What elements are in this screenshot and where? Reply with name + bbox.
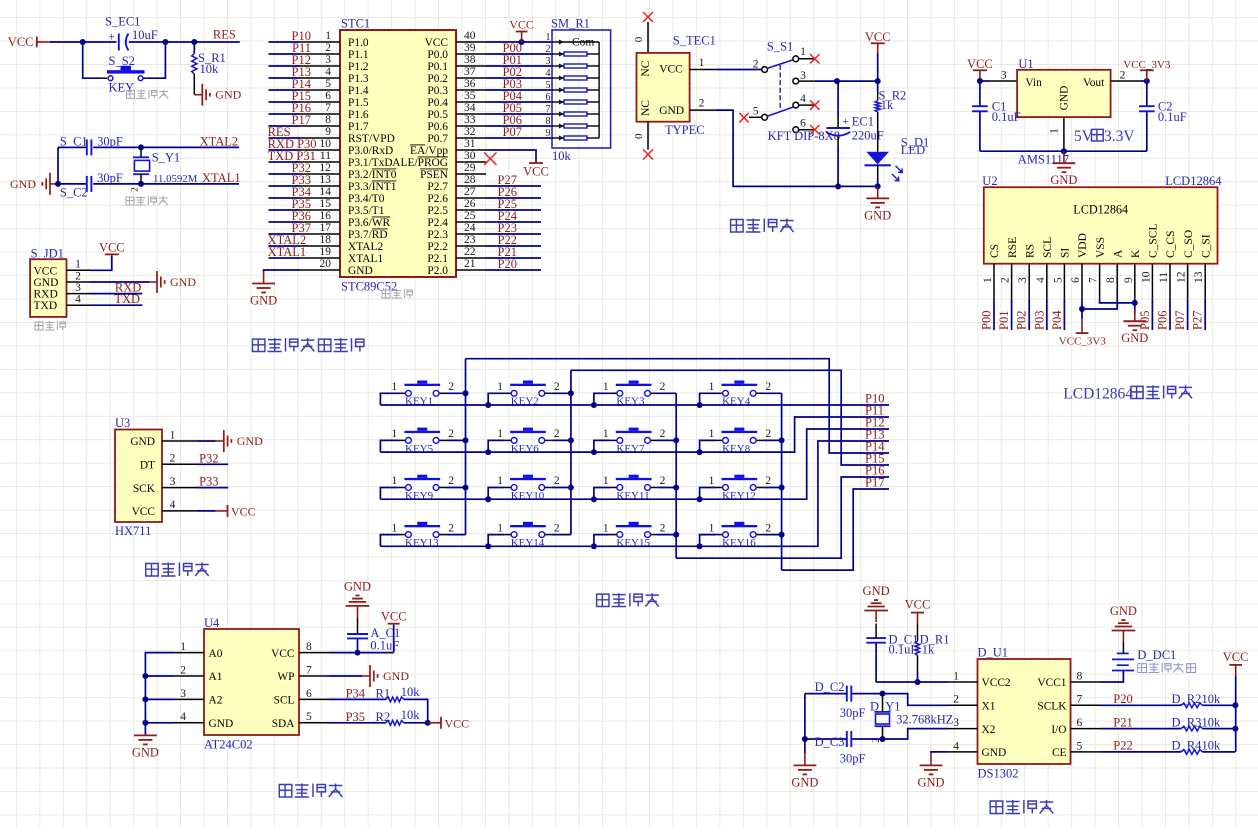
svg-text:7: 7 (1077, 694, 1083, 706)
no-connect X above S_TEC1 (643, 12, 653, 22)
svg-text:7: 7 (546, 104, 551, 115)
wire KEY8 pin1 riser (700, 440, 716, 452)
wire net TXD (90, 292, 142, 306)
power port VCC (HX711) (228, 504, 256, 518)
svg-text:KEY3: KEY3 (616, 396, 645, 408)
node junction row 2 col 2 (485, 449, 491, 455)
node junction VDD/A (1079, 306, 1085, 312)
svg-text:P0.6: P0.6 (427, 121, 448, 133)
wire KEY6 pin1 riser (488, 440, 504, 452)
svg-text:P27: P27 (1191, 311, 1205, 330)
wire KEY11 pin1 riser (594, 488, 610, 500)
SM_R1 resistor element pin 8 (546, 116, 600, 129)
wire column2 to net P15 (571, 370, 889, 465)
svg-text:GND: GND (864, 208, 891, 222)
svg-text:KEY1: KEY1 (405, 396, 433, 408)
svg-text:A1: A1 (209, 671, 223, 683)
svg-text:2: 2 (765, 522, 771, 534)
svg-text:36: 36 (464, 78, 476, 90)
pushbutton KEY8 (709, 428, 772, 455)
wire XTAL2 net (93, 146, 239, 148)
svg-text:P0.0: P0.0 (427, 49, 448, 61)
svg-text:15: 15 (320, 198, 332, 210)
svg-text:TXD: TXD (34, 300, 58, 312)
net label XTAL1 (202, 171, 241, 185)
wire pin8 VCC to A_C1 and VCC (329, 652, 394, 654)
svg-text:+: + (842, 116, 849, 128)
pin 9 STC1 RST/VPD (300, 126, 395, 145)
svg-text:P0.1: P0.1 (427, 61, 448, 73)
svg-text:KEY5: KEY5 (405, 443, 434, 455)
pushbutton KEY10 (497, 475, 560, 502)
wire KEY10 pin1 riser (488, 488, 504, 500)
svg-text:4: 4 (180, 711, 186, 723)
pin 23 STC1 P2.2 (427, 234, 486, 253)
wire net P32 (197, 451, 228, 465)
svg-text:2: 2 (753, 58, 759, 70)
svg-text:1: 1 (546, 32, 551, 43)
node junctions column3 (673, 437, 679, 537)
svg-text:1: 1 (603, 522, 609, 534)
svg-text:GND: GND (1059, 86, 1071, 111)
node junction row 4 col 4 (697, 543, 703, 549)
wire cap bus left vertical (57, 147, 59, 184)
svg-text:9: 9 (546, 128, 551, 139)
wire MCU GND pin 20 (264, 270, 300, 272)
svg-text:X1: X1 (982, 701, 996, 713)
wire KEY2 pin1 riser (488, 393, 504, 405)
svg-text:1: 1 (497, 428, 503, 440)
power port VCC (D_R1) (905, 597, 931, 623)
wire stub 0 bottom of S_TEC1 (633, 122, 648, 150)
svg-text:I/O: I/O (1051, 724, 1066, 736)
wire net RXD (90, 281, 142, 295)
wire KEY11 pin2 to column (658, 487, 677, 489)
svg-text:3: 3 (325, 54, 331, 66)
ground GND (U4 WP) (362, 665, 409, 687)
wire K pin9 down (1134, 299, 1136, 314)
svg-text:P0.3: P0.3 (427, 85, 448, 97)
svg-text:27: 27 (464, 186, 476, 198)
svg-text:2: 2 (699, 98, 705, 110)
svg-text:2: 2 (765, 381, 771, 393)
svg-text:P2.5: P2.5 (427, 205, 448, 217)
svg-text:P05: P05 (1138, 311, 1152, 330)
wire GND return bottom rail (716, 110, 878, 186)
pin 1 U3 GND (162, 429, 197, 441)
wire net P33 (197, 475, 228, 489)
wire column1 to net P14 (466, 359, 890, 453)
svg-text:VCC: VCC (381, 610, 407, 624)
power port VCC (R1 R2 pullup) (428, 716, 469, 730)
ground GND (MCU) (250, 272, 277, 308)
wire pin1 to VCC (90, 256, 112, 270)
svg-text:LCD12864: LCD12864 (1165, 174, 1222, 188)
svg-text:P1.2: P1.2 (348, 61, 369, 73)
wire net TXD P31 (MCU left) (268, 149, 316, 163)
IC D_U1 DS1302 body (978, 646, 1071, 781)
node junction VSS/K (1132, 300, 1138, 306)
svg-text:2: 2 (554, 475, 560, 487)
pin 4 STC1 P1.3 (300, 66, 369, 85)
pin 28 STC1 P2.7 (427, 174, 486, 193)
capacitor S_C1 30pF (58, 134, 123, 155)
IC U-STC1 STC89C52 body (340, 17, 456, 294)
node junction crystal top (DS1302) (880, 691, 886, 697)
wire net P05 (LCD) (1138, 299, 1153, 330)
svg-text:10k: 10k (1202, 692, 1222, 706)
wire net P34 (MCU left) (269, 185, 312, 199)
svg-text:P2.3: P2.3 (427, 229, 448, 241)
svg-text:P3.3/INT1: P3.3/INT1 (348, 181, 397, 193)
wire net P00 (MCU to SM_R1) (486, 41, 552, 55)
svg-text:1: 1 (497, 522, 503, 534)
node junction row 1 col 3 (591, 402, 597, 408)
pin 10 STC1 P3.0/RxD (300, 138, 393, 157)
wire row2 to net P11 (380, 417, 889, 452)
wire net P26 (MCU right) (486, 185, 541, 199)
svg-text:NC: NC (640, 100, 652, 116)
wire KEY12 pin2 to column (763, 487, 781, 489)
node junction EC1 top (834, 78, 840, 84)
section label 称重模块 (146, 563, 209, 577)
svg-text:30: 30 (464, 150, 476, 162)
node junction GND bus (1061, 148, 1067, 154)
svg-text:D_C3: D_C3 (815, 735, 845, 749)
svg-text:KEY9: KEY9 (405, 490, 434, 502)
pin 3 STC1 P1.2 (300, 54, 369, 73)
wire net P20 (MCU right) (486, 257, 541, 271)
wire net P12 (MCU left) (269, 53, 312, 67)
svg-text:40: 40 (464, 30, 476, 42)
svg-text:1: 1 (170, 429, 176, 441)
svg-text:37: 37 (464, 66, 476, 78)
node junction R2/VCC (425, 720, 431, 726)
svg-text:GND: GND (383, 669, 409, 683)
svg-text:+: + (109, 31, 116, 43)
pin stub + X at S_S1 pin6 (799, 125, 820, 134)
wire net P06 (LCD) (1156, 299, 1171, 330)
svg-text:VCC: VCC (132, 506, 155, 518)
svg-text:P1.6: P1.6 (348, 109, 369, 121)
power port VCC (AMS1117 input) (967, 57, 993, 81)
svg-text:VCC: VCC (99, 240, 125, 254)
svg-text:P0.4: P0.4 (427, 97, 448, 109)
svg-text:GND: GND (348, 265, 373, 277)
svg-text:P33: P33 (199, 475, 218, 489)
svg-text:26: 26 (464, 198, 476, 210)
pin 30 STC1 ALE/PROG (392, 150, 486, 169)
svg-text:10k: 10k (552, 149, 572, 163)
capacitor D_C2 30pF (805, 680, 883, 720)
svg-text:6: 6 (325, 90, 331, 102)
wire net P17 (MCU left) (269, 113, 312, 127)
pin 20 STC1 GND (300, 258, 373, 277)
svg-text:3.3V: 3.3V (1104, 128, 1135, 145)
section label 电源电路 (731, 219, 794, 233)
pin 8 U4 right (299, 641, 329, 653)
svg-text:5: 5 (1077, 740, 1083, 752)
pin 1 D_U1 (948, 670, 978, 682)
svg-text:1: 1 (982, 277, 994, 283)
gray label 按键复位 (127, 90, 169, 99)
svg-text:1k: 1k (881, 98, 894, 112)
svg-text:EC1: EC1 (852, 115, 874, 129)
wire KEY1 pin1 riser (row 1) (380, 393, 398, 405)
capacitor D_C3 30pF (805, 731, 883, 766)
wire U4 address bus to GND (145, 653, 174, 736)
node junction row 4 col 2 (485, 543, 491, 549)
net label P12 (keypad) (865, 416, 884, 430)
wire KEY16 pin2 to column (763, 534, 781, 536)
wire KEY14 pin1 riser (488, 535, 504, 547)
svg-text:S_S1: S_S1 (767, 40, 793, 54)
pushbutton KEY3 (603, 381, 666, 408)
pin 32 STC1 P0.7 (427, 126, 486, 145)
pin 3 U2 RS (1017, 244, 1036, 299)
svg-text:P07: P07 (503, 125, 522, 139)
svg-text:2: 2 (1120, 70, 1126, 82)
svg-text:2: 2 (765, 475, 771, 487)
svg-text:VCC: VCC (659, 63, 683, 75)
wire net P01 (MCU to SM_R1) (486, 53, 552, 67)
svg-text:2: 2 (554, 381, 560, 393)
svg-text:KFT DIP-8X8: KFT DIP-8X8 (768, 129, 840, 143)
wire net P03 (MCU to SM_R1) (486, 77, 552, 91)
pushbutton KEY9 (392, 475, 455, 502)
pushbutton KEY14 (497, 522, 560, 549)
svg-text:GND: GND (344, 580, 371, 594)
pushbutton KEY6 (497, 428, 560, 455)
pin 5 STC1 P1.4 (300, 78, 369, 97)
gray label 晶振电路 (126, 196, 168, 205)
pin 4 D_U1 (948, 740, 978, 752)
net label P13 (keypad) (865, 428, 884, 442)
ground GND (LCD) (1121, 309, 1148, 345)
svg-text:S_JD1: S_JD1 (31, 246, 64, 260)
svg-text:10k: 10k (200, 62, 220, 76)
svg-text:5: 5 (1052, 277, 1064, 283)
pushbutton KEY11 (603, 475, 666, 502)
wire KEY15 pin1 riser (594, 535, 610, 547)
svg-text:0.1uF: 0.1uF (370, 638, 399, 652)
wire pin1 VCC2 to D_C1/D_R1 (876, 681, 947, 683)
pin stub + X at S_S1 pin5 (739, 113, 761, 122)
wire net P06 (MCU to SM_R1) (486, 113, 552, 127)
svg-text:19: 19 (320, 246, 332, 258)
power port VCC (S_JD1) (99, 240, 125, 256)
svg-text:KEY7: KEY7 (616, 443, 645, 455)
wire KEY9 pin2 to column (446, 487, 465, 489)
svg-text:2: 2 (448, 475, 454, 487)
wire net P16 (MCU left) (269, 101, 312, 115)
svg-text:P2.6: P2.6 (427, 193, 448, 205)
svg-text:24: 24 (464, 222, 476, 234)
wire KEY7 pin1 riser (594, 440, 610, 452)
node junction crystal top (138, 144, 144, 150)
wire net P02 (LCD) (1015, 299, 1030, 330)
svg-text:13: 13 (1193, 271, 1205, 283)
svg-text:10k: 10k (1202, 739, 1222, 753)
svg-text:1: 1 (392, 522, 398, 534)
wire row1 to net P10 (380, 404, 889, 406)
svg-text:LED: LED (901, 143, 925, 157)
pushbutton KEY4 (709, 381, 772, 408)
svg-text:P03: P03 (1032, 311, 1046, 330)
pin 36 STC1 P0.3 (427, 78, 486, 97)
svg-text:U2: U2 (982, 174, 997, 188)
net label P10 (keypad) (865, 392, 884, 406)
ground GND (HX711) (216, 430, 263, 452)
wire net RXD P30 (MCU left) (268, 137, 317, 151)
pin 19 STC1 XTAL1 (300, 246, 383, 265)
pushbutton KEY13 (392, 522, 455, 549)
pin 17 STC1 P3.7/RD (300, 222, 388, 241)
svg-text:P3.6/WR: P3.6/WR (348, 217, 390, 229)
svg-text:4: 4 (800, 93, 806, 105)
svg-text:38: 38 (464, 54, 476, 66)
pushbutton KEY15 (603, 522, 666, 549)
svg-text:1: 1 (603, 381, 609, 393)
pin 6 U2 VDD (1070, 233, 1089, 299)
svg-text:XTAL2: XTAL2 (348, 241, 383, 253)
svg-text:S_C1: S_C1 (60, 134, 88, 148)
resistor S_R2 1k (875, 53, 906, 152)
svg-text:34: 34 (464, 102, 476, 114)
pin 31 STC1 EA/Vpp (410, 138, 486, 157)
wire pin4 GND down (931, 752, 948, 754)
wire column2 vertical (570, 370, 572, 534)
svg-text:11: 11 (320, 150, 331, 162)
pin 3 U3 SCK (162, 476, 197, 488)
wire net P10 (MCU left) (269, 29, 312, 43)
svg-text:SDA: SDA (272, 718, 296, 730)
ground GND (AMS1117) (1050, 151, 1077, 187)
svg-text:RES: RES (213, 28, 236, 42)
svg-text:1: 1 (1049, 128, 1061, 134)
wire net P27 (LCD) (1191, 299, 1206, 330)
svg-text:S_EC1: S_EC1 (105, 15, 140, 29)
wire pin3 X2 to crystal (883, 729, 948, 739)
svg-text:XTAL1: XTAL1 (202, 171, 241, 185)
svg-text:4: 4 (75, 294, 81, 306)
pin 2 D_U1 (948, 694, 978, 706)
wire KEY8 pin2 to column (763, 439, 781, 441)
svg-text:KEY15: KEY15 (616, 537, 650, 549)
svg-text:GND: GND (659, 105, 684, 117)
svg-text:KEY14: KEY14 (511, 537, 545, 549)
svg-text:3: 3 (800, 70, 806, 82)
pin 27 STC1 P2.6 (427, 186, 486, 205)
pin 34 STC1 P0.5 (427, 102, 486, 121)
svg-text:GND: GND (130, 436, 155, 448)
LED S_D1 (865, 136, 930, 187)
node junction EC1 bottom (835, 183, 841, 189)
svg-text:2: 2 (448, 428, 454, 440)
pin 2 STC1 P1.1 (300, 42, 369, 61)
svg-text:VCC: VCC (271, 648, 294, 660)
wire pin1 to switch S_S1 (716, 69, 762, 71)
svg-text:RSE: RSE (1007, 237, 1019, 258)
wire KEY5 pin2 to column (446, 439, 465, 441)
svg-text:1: 1 (497, 381, 503, 393)
svg-text:KEY12: KEY12 (722, 490, 756, 502)
resistor S_R1 10k (192, 42, 226, 95)
svg-text:2: 2 (448, 522, 454, 534)
svg-text:GND: GND (1121, 331, 1148, 345)
svg-text:VCC: VCC (1223, 650, 1249, 664)
node junction crystal bottom (138, 181, 144, 187)
svg-text:P01: P01 (997, 311, 1011, 330)
pin 7 U4 right (299, 664, 329, 676)
SM_R1 resistor element pin 5 (546, 80, 600, 93)
power port VCC (reset circuit) (8, 35, 50, 49)
svg-text:U4: U4 (204, 616, 220, 630)
pin 2 U4 (174, 664, 204, 676)
svg-text:2: 2 (170, 453, 176, 465)
svg-text:P3.4/T0: P3.4/T0 (348, 193, 385, 205)
wire net RES (MCU left) (268, 125, 300, 139)
svg-text:VCC: VCC (865, 30, 891, 44)
wire net P04 (MCU to SM_R1) (486, 89, 552, 103)
svg-text:10k: 10k (1202, 715, 1222, 729)
svg-text:1: 1 (392, 381, 398, 393)
wire KEY1 pin2 to column (446, 392, 465, 394)
svg-text:2: 2 (448, 381, 454, 393)
svg-text:D_U1: D_U1 (978, 646, 1009, 660)
net label P16 (keypad) (865, 464, 884, 478)
pin 25 STC1 P2.4 (427, 210, 486, 229)
wire net P00 (LCD) (980, 299, 995, 330)
svg-text:GND: GND (982, 747, 1007, 759)
svg-text:PSEN: PSEN (420, 169, 448, 181)
svg-text:VCC: VCC (231, 504, 256, 518)
svg-text:P2.2: P2.2 (427, 241, 448, 253)
node junction at RES / S_R1 (191, 39, 197, 45)
svg-text:20: 20 (320, 258, 332, 270)
capacitor D_C1 0.1uF (866, 624, 918, 683)
pin 12 STC1 P3.2/INT0 (300, 162, 397, 181)
svg-text:1: 1 (392, 475, 398, 487)
SM_R1 resistor element pin 7 (546, 104, 600, 117)
node junction left of S_EC1 (80, 39, 86, 45)
svg-text:RXD: RXD (34, 289, 58, 301)
IC U4 AT24C02 body (204, 616, 299, 752)
power port VCC (U4) (381, 610, 407, 653)
pushbutton KEY1 (392, 381, 455, 408)
svg-text:10k: 10k (401, 685, 421, 699)
svg-text:P22: P22 (1113, 739, 1132, 753)
no-connect X at ALE pin30 (484, 153, 496, 165)
wire AMS1117 ground bus (980, 150, 1147, 152)
crystal S_Y1 11.0592M (130, 147, 198, 191)
svg-text:VCC: VCC (967, 57, 993, 71)
IC U1 AMS1117 body (1017, 57, 1111, 167)
ground GND (S_JD1) (149, 271, 196, 293)
wire net P35 (MCU left) (269, 197, 312, 211)
svg-text:6: 6 (546, 92, 551, 103)
wire net P03 (LCD) (1032, 299, 1047, 330)
wire KEY7 pin2 to column (658, 439, 677, 441)
svg-text:C_SI: C_SI (1200, 234, 1212, 258)
svg-text:12: 12 (1176, 271, 1188, 283)
node junctions U4 bus (142, 673, 148, 726)
svg-text:25: 25 (464, 210, 476, 222)
svg-text:10: 10 (320, 138, 332, 150)
crystal D_Y1 32.768kHZ (870, 694, 953, 743)
pin 39 STC1 P0.0 (427, 42, 486, 61)
node junction A_C1 (355, 650, 361, 656)
